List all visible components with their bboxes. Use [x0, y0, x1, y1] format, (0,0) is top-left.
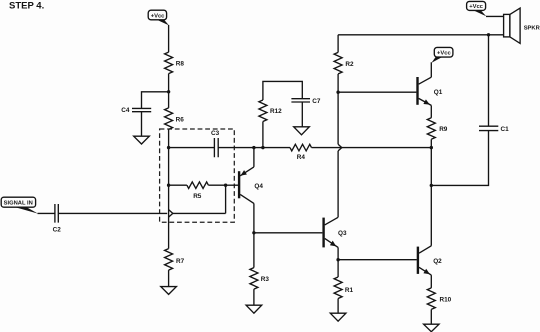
transistor Q2	[418, 246, 442, 275]
svg-text:R8: R8	[176, 60, 185, 67]
svg-text:Q3: Q3	[338, 230, 347, 237]
node R5/Q4 base junction	[224, 184, 227, 187]
wire C3 to mid rail / R4	[218, 147, 290, 149]
svg-text:R5: R5	[193, 193, 202, 200]
node R2 / Q1 base / Q3 collector	[336, 91, 339, 94]
SIGNAL IN flag	[1, 197, 38, 213]
ground (R3)	[246, 305, 262, 313]
wire node down to Q3 collector (hops over mid rail)	[337, 92, 339, 217]
wire Q1 emitter to R9	[430, 105, 432, 117]
node Q4 collector / R3 / Q3 base	[252, 231, 255, 234]
+Vcc supply flag (R8 branch)	[148, 10, 169, 25]
ground (R10)	[424, 324, 439, 332]
wire +Vcc to speaker top terminal	[486, 15, 504, 17]
ground (C7)	[294, 127, 310, 135]
wire C7 to ground	[301, 102, 303, 127]
wire junction to R5	[169, 184, 187, 186]
wire R8 to C4/R6 node	[168, 74, 170, 92]
wire node to Q2 base	[338, 259, 417, 261]
wire SIGNAL IN to C2	[38, 212, 55, 214]
+Vcc supply flag (Q1)	[431, 47, 453, 63]
svg-text:C3: C3	[211, 130, 220, 137]
speaker SPKR	[504, 8, 540, 43]
svg-text:R7: R7	[176, 258, 185, 265]
resistor R4	[290, 144, 312, 161]
wire R3 to ground	[253, 289, 255, 305]
wire base node to Q4	[226, 184, 238, 186]
node R9/R4 output junction	[430, 146, 433, 149]
wire R2 to base node	[337, 74, 339, 92]
wire feedback node to C3	[169, 147, 215, 149]
svg-text:C4: C4	[121, 107, 130, 114]
wire R1 to ground	[337, 299, 339, 314]
wire R12 top to C7 top link	[263, 81, 302, 100]
svg-text:R9: R9	[439, 126, 448, 133]
svg-text:Q4: Q4	[254, 183, 263, 190]
node feedback junction R6/C3/R5	[167, 146, 170, 149]
wire Q2 collector to output node	[430, 185, 432, 245]
node R8/C4/R6 junction	[167, 90, 170, 93]
capacitor C2	[53, 204, 62, 234]
wire +Vcc to Q1 collector	[430, 62, 432, 77]
svg-text:R1: R1	[345, 287, 354, 294]
resistor R3	[250, 268, 270, 290]
wire node to C4	[142, 92, 169, 109]
wire node to R6	[168, 92, 170, 108]
wire Q4 collector down	[253, 203, 255, 232]
transistor Q3	[324, 217, 347, 247]
ground (R7)	[161, 287, 177, 295]
node Q4 emitter junction	[252, 146, 255, 149]
ground (C4)	[134, 136, 150, 144]
resistor R8	[165, 52, 185, 73]
dashed feedback network box	[160, 129, 235, 222]
svg-text:C2: C2	[53, 227, 62, 234]
resistor R5	[187, 182, 209, 200]
wire hop (no-connect crossover)	[169, 210, 173, 218]
svg-text:SPKR: SPKR	[524, 26, 540, 32]
node mid-rail R12 junction	[261, 146, 264, 149]
svg-text:R2: R2	[345, 61, 354, 68]
wire node to R3	[253, 233, 255, 268]
wire C2 to hop	[58, 212, 167, 214]
capacitor C1	[479, 126, 509, 133]
svg-text:C7: C7	[312, 98, 321, 105]
wire hop to base riser	[173, 212, 226, 214]
svg-text:R12: R12	[270, 108, 282, 115]
wire node to R1	[337, 260, 339, 277]
resistor R1	[334, 277, 353, 299]
resistor R6	[165, 108, 185, 129]
svg-text:+Vcc: +Vcc	[469, 4, 483, 10]
wire riser to base node	[225, 185, 227, 213]
wire Q2 emitter to R10	[430, 275, 432, 288]
wire output node down	[430, 148, 432, 186]
capacitor C7	[291, 98, 321, 105]
wire R9 to output node	[430, 139, 432, 147]
svg-text:Q1: Q1	[434, 89, 443, 96]
+Vcc supply flag (speaker)	[467, 1, 487, 16]
svg-text:+Vcc: +Vcc	[437, 51, 451, 57]
svg-text:R3: R3	[261, 276, 270, 283]
resistor R9	[427, 118, 448, 140]
wire R7 to ground	[168, 270, 170, 287]
svg-text:SIGNAL IN: SIGNAL IN	[4, 201, 33, 207]
capacitor C4	[121, 107, 151, 114]
transistor Q4	[239, 167, 263, 204]
svg-text:R4: R4	[297, 154, 306, 161]
capacitor C3	[211, 130, 220, 157]
node output / C1 junction	[430, 184, 433, 187]
svg-text:R10: R10	[440, 297, 452, 304]
svg-text:Q2: Q2	[433, 258, 442, 265]
wire base node to Q1	[338, 91, 416, 93]
wire Q4 collector node to Q3 base	[254, 232, 323, 234]
wire output node to C1	[431, 131, 488, 186]
wire R12 bottom lead	[262, 122, 264, 148]
node Q3 emitter / R1 / Q2 base	[336, 258, 339, 261]
svg-text:+Vcc: +Vcc	[151, 14, 165, 20]
wire R5 to base node	[208, 184, 225, 186]
transistor Q1	[418, 77, 443, 105]
wire +Vcc to R8	[168, 25, 170, 52]
wire Q4 emitter to rail	[253, 148, 255, 167]
wire Q3 emitter to node	[337, 247, 339, 259]
wire feedback node down to R5	[168, 148, 170, 186]
wire rail corner to R2	[337, 35, 339, 53]
wire hop (no-connect crossover at mid rail)	[338, 144, 342, 151]
resistor R7	[165, 249, 185, 271]
resistor R10	[427, 288, 451, 310]
resistor R12	[259, 100, 282, 121]
svg-text:R6: R6	[176, 116, 185, 123]
svg-text:STEP 4.: STEP 4.	[9, 1, 44, 12]
ground (R1)	[330, 313, 346, 321]
svg-text:C1: C1	[501, 126, 510, 133]
wire R4 to R9 node	[312, 147, 432, 149]
wire C1 to rail	[488, 35, 490, 126]
top rail wire	[338, 34, 504, 36]
wire C4 to ground	[141, 112, 143, 137]
wire left branch down through hop to R7	[168, 185, 170, 248]
resistor R2	[334, 52, 354, 73]
node R5 left junction	[167, 184, 170, 187]
wire R10 to ground	[430, 309, 432, 324]
wire R6 to feedback node	[168, 129, 170, 147]
node rail / C1 / speaker	[487, 33, 490, 36]
